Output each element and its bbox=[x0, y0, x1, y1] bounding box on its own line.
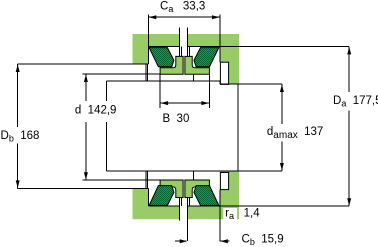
svg-text:B 30: B 30 bbox=[163, 113, 190, 125]
svg-text:d 142,9: d 142,9 bbox=[75, 105, 117, 117]
svg-text:Db 168: Db 168 bbox=[1, 130, 40, 144]
svg-text:Ca 33,3: Ca 33,3 bbox=[160, 1, 205, 15]
svg-text:Cb 15,9: Cb 15,9 bbox=[242, 234, 284, 247]
svg-text:Da 177,5: Da 177,5 bbox=[333, 95, 378, 109]
